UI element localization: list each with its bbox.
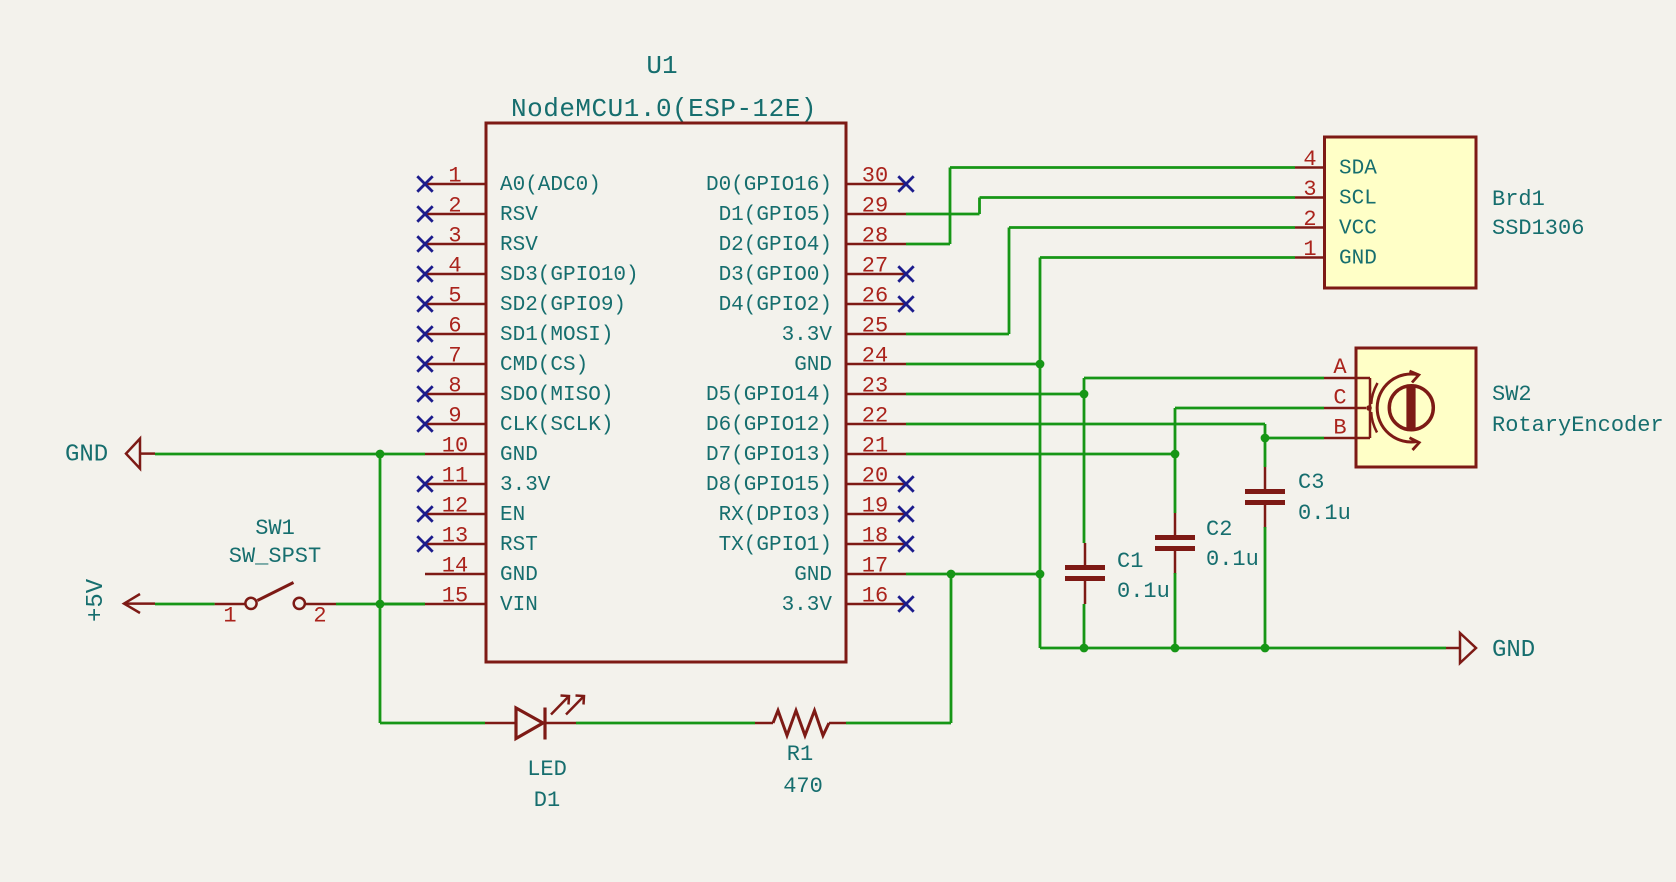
svg-text:7: 7 bbox=[448, 344, 461, 369]
svg-text:D2(GPIO4): D2(GPIO4) bbox=[719, 234, 832, 257]
svg-text:U1: U1 bbox=[646, 51, 677, 81]
SW2 wiper arcs bbox=[1371, 383, 1377, 404]
wire jog up pin29 bbox=[978, 198, 981, 215]
pin 25 3.3V (U1 right) bbox=[782, 314, 906, 348]
wire to SDA bbox=[950, 166, 1295, 169]
svg-text:D1: D1 bbox=[534, 788, 560, 813]
pin 1 A0(ADC0) (U1 left) bbox=[417, 164, 601, 198]
wire to SCL bbox=[980, 196, 1296, 199]
svg-text:16: 16 bbox=[862, 584, 888, 609]
junction (1040,364) bbox=[1036, 360, 1045, 369]
svg-text:D4(GPIO2): D4(GPIO2) bbox=[719, 294, 832, 317]
svg-text:22: 22 bbox=[862, 404, 888, 429]
SW2 rotor circle bbox=[1389, 386, 1433, 430]
svg-text:GND: GND bbox=[65, 442, 108, 469]
svg-text:A0(ADC0): A0(ADC0) bbox=[500, 174, 601, 197]
wire GND vertical bus bbox=[1039, 258, 1042, 649]
svg-text:11: 11 bbox=[442, 464, 468, 489]
pin 27 D3(GPIO0) (U1 right) bbox=[719, 254, 914, 288]
svg-text:EN: EN bbox=[500, 504, 525, 527]
pin 4 SD3(GPIO10) (U1 left) bbox=[417, 254, 638, 288]
wire to VCC bbox=[1009, 226, 1295, 229]
wire C3 bottom bbox=[1264, 527, 1267, 648]
wire jog up pin25 bbox=[1008, 228, 1011, 335]
svg-text:C3: C3 bbox=[1298, 470, 1324, 495]
SW1 contact circle 2 bbox=[294, 598, 305, 609]
pin 29 D1(GPIO5) (U1 right) bbox=[719, 194, 906, 228]
pin 9 CLK(SCLK) (U1 left) bbox=[417, 404, 613, 438]
svg-text:GND: GND bbox=[500, 564, 538, 587]
LED D1 triangle bbox=[516, 708, 543, 739]
svg-text:CLK(SCLK): CLK(SCLK) bbox=[500, 414, 613, 437]
wire VIN down to LED row bbox=[379, 604, 382, 723]
pin 15 VIN (U1 left) bbox=[425, 584, 538, 618]
pin 22 D6(GPIO12) (U1 right) bbox=[706, 404, 906, 438]
display module Brd1 SSD1306 body bbox=[1325, 137, 1477, 288]
svg-text:RSV: RSV bbox=[500, 234, 538, 257]
wire down to B row bbox=[1264, 424, 1267, 438]
pin 5 SD2(GPIO9) (U1 left) bbox=[417, 284, 626, 318]
svg-text:3: 3 bbox=[1303, 177, 1316, 202]
SW2 rotor slot bar bbox=[1406, 386, 1415, 431]
pin A (SW2) bbox=[1324, 355, 1370, 380]
svg-text:C1: C1 bbox=[1117, 549, 1143, 574]
svg-text:SDO(MISO): SDO(MISO) bbox=[500, 384, 613, 407]
wire pin28 to jog bbox=[906, 243, 950, 246]
IC U1 body (NodeMCU1.0 ESP-12E outline) bbox=[486, 123, 846, 662]
junction (380,604) bbox=[376, 600, 385, 609]
svg-text:B: B bbox=[1333, 416, 1346, 441]
wire pin17 GND row bbox=[906, 573, 1040, 576]
svg-text:RSV: RSV bbox=[500, 204, 538, 227]
svg-text:D5(GPIO14): D5(GPIO14) bbox=[706, 384, 832, 407]
wire riser R1 up to pin17 row bbox=[950, 574, 953, 723]
svg-text:RX(DPIO3): RX(DPIO3) bbox=[719, 504, 832, 527]
svg-text:GND: GND bbox=[500, 444, 538, 467]
pin 23 D5(GPIO14) (U1 right) bbox=[706, 374, 906, 408]
svg-text:1: 1 bbox=[1303, 237, 1316, 262]
+5V label flag bbox=[83, 578, 155, 622]
svg-text:14: 14 bbox=[442, 554, 468, 579]
pin 18 TX(GPIO1) (U1 right) bbox=[719, 524, 914, 558]
svg-text:10: 10 bbox=[442, 434, 468, 459]
SW2 rotation arrowhead top bbox=[1410, 371, 1419, 383]
wire to encoder B bbox=[1265, 437, 1324, 440]
wire to LED anode bbox=[380, 722, 485, 725]
svg-text:SCL: SCL bbox=[1339, 188, 1377, 211]
resistor R1 zigzag bbox=[773, 711, 829, 736]
svg-text:SW1: SW1 bbox=[255, 516, 295, 541]
junction (1265,438) bbox=[1261, 434, 1270, 443]
svg-text:D8(GPIO15): D8(GPIO15) bbox=[706, 474, 832, 497]
wire vertical GND to pin 14 bbox=[379, 454, 382, 604]
junction (1175,648) bbox=[1171, 644, 1180, 653]
svg-text:23: 23 bbox=[862, 374, 888, 399]
pin 28 D2(GPIO4) (U1 right) bbox=[719, 224, 906, 258]
svg-text:24: 24 bbox=[862, 344, 888, 369]
GND label flag left bbox=[65, 439, 155, 469]
svg-text:4: 4 bbox=[448, 254, 461, 279]
wire SW1 to pin 15 bbox=[336, 603, 425, 606]
svg-text:3: 3 bbox=[448, 224, 461, 249]
resistor R1 leads bbox=[755, 722, 773, 725]
pin 2 VCC (Brd1) bbox=[1295, 207, 1377, 241]
pin 1 (SW1) bbox=[215, 604, 246, 629]
pin 11 3.3V (U1 left) bbox=[417, 464, 551, 498]
svg-text:12: 12 bbox=[442, 494, 468, 519]
svg-text:6: 6 bbox=[448, 314, 461, 339]
svg-text:19: 19 bbox=[862, 494, 888, 519]
pin 17 GND (U1 right) bbox=[794, 554, 906, 588]
svg-text:3.3V: 3.3V bbox=[500, 474, 551, 497]
wire up to A row bbox=[1083, 378, 1086, 394]
junction (1084,648) bbox=[1080, 644, 1089, 653]
SW2 contact bracket bbox=[1369, 378, 1372, 438]
svg-text:1: 1 bbox=[223, 604, 236, 629]
wire pin14 connect bbox=[380, 603, 425, 606]
pin 30 D0(GPIO16) (U1 right) bbox=[706, 164, 914, 198]
svg-text:RotaryEncoder: RotaryEncoder bbox=[1492, 413, 1664, 438]
pin 26 D4(GPIO2) (U1 right) bbox=[719, 284, 914, 318]
svg-text:20: 20 bbox=[862, 464, 888, 489]
junction (1175,454) bbox=[1171, 450, 1180, 459]
svg-text:5: 5 bbox=[448, 284, 461, 309]
LED D1 emission arrow 2 bbox=[566, 696, 584, 715]
LED D1 cathode bar bbox=[543, 708, 546, 740]
svg-text:26: 26 bbox=[862, 284, 888, 309]
wire pin25 to jog bbox=[906, 333, 1009, 336]
svg-text:D6(GPIO12): D6(GPIO12) bbox=[706, 414, 832, 437]
svg-text:SSD1306: SSD1306 bbox=[1492, 216, 1584, 241]
pin B (SW2) bbox=[1324, 416, 1370, 441]
svg-text:SD3(GPIO10): SD3(GPIO10) bbox=[500, 264, 639, 287]
svg-text:GND: GND bbox=[1339, 248, 1377, 271]
pin 2 (SW1) bbox=[305, 604, 336, 629]
pin 8 SDO(MISO) (U1 left) bbox=[417, 374, 613, 408]
svg-text:TX(GPIO1): TX(GPIO1) bbox=[719, 534, 832, 557]
svg-text:VCC: VCC bbox=[1339, 218, 1377, 241]
svg-text:GND: GND bbox=[794, 564, 832, 587]
pin 20 D8(GPIO15) (U1 right) bbox=[706, 464, 914, 498]
svg-text:D3(GPIO0): D3(GPIO0) bbox=[719, 264, 832, 287]
GND label flag right bbox=[1446, 633, 1535, 664]
svg-text:2: 2 bbox=[448, 194, 461, 219]
junction (1084,394) bbox=[1080, 390, 1089, 399]
capacitor C1 bbox=[1065, 543, 1170, 604]
svg-text:Brd1: Brd1 bbox=[1492, 187, 1545, 212]
svg-text:C2: C2 bbox=[1206, 517, 1232, 542]
LED D1 cathode lead bbox=[545, 722, 576, 725]
LED D1 anode lead bbox=[485, 722, 516, 725]
svg-text:30: 30 bbox=[862, 164, 888, 189]
svg-text:28: 28 bbox=[862, 224, 888, 249]
pin 21 D7(GPIO13) (U1 right) bbox=[706, 434, 906, 468]
svg-text:RST: RST bbox=[500, 534, 538, 557]
pin 2 RSV (U1 left) bbox=[417, 194, 538, 228]
svg-text:CMD(CS): CMD(CS) bbox=[500, 354, 588, 377]
pin 14 GND (U1 left) bbox=[425, 554, 538, 588]
wire GND flag to pin 10 bbox=[155, 453, 425, 456]
wire LED to R1 bbox=[576, 722, 755, 725]
svg-text:D7(GPIO13): D7(GPIO13) bbox=[706, 444, 832, 467]
svg-text:LED: LED bbox=[527, 757, 567, 782]
LED D1 emission arrow 1 bbox=[551, 696, 569, 715]
wire GND rail bbox=[1040, 647, 1446, 650]
wire pin24 GND row bbox=[906, 363, 1040, 366]
pin 6 SD1(MOSI) (U1 left) bbox=[417, 314, 613, 348]
wire R1 to riser bbox=[846, 722, 951, 725]
pin 1 GND (Brd1) bbox=[1295, 237, 1377, 271]
junction (1265,648) bbox=[1261, 644, 1270, 653]
svg-text:SD2(GPIO9): SD2(GPIO9) bbox=[500, 294, 626, 317]
junction (1040,574) bbox=[1036, 570, 1045, 579]
svg-text:4: 4 bbox=[1303, 147, 1316, 172]
svg-text:2: 2 bbox=[1303, 207, 1316, 232]
SW1 lever bbox=[257, 583, 293, 601]
pin 16 3.3V (U1 right) bbox=[782, 584, 914, 618]
junction (380,454) bbox=[376, 450, 385, 459]
svg-text:0.1u: 0.1u bbox=[1117, 579, 1170, 604]
svg-text:D0(GPIO16): D0(GPIO16) bbox=[706, 174, 832, 197]
svg-text:9: 9 bbox=[448, 404, 461, 429]
svg-text:D1(GPIO5): D1(GPIO5) bbox=[719, 204, 832, 227]
capacitor C2 bbox=[1155, 513, 1259, 574]
svg-text:GND: GND bbox=[794, 354, 832, 377]
svg-text:3.3V: 3.3V bbox=[782, 324, 833, 347]
pin 7 CMD(CS) (U1 left) bbox=[417, 344, 588, 378]
svg-text:1: 1 bbox=[448, 164, 461, 189]
pin C (SW2) bbox=[1324, 386, 1372, 411]
svg-text:SDA: SDA bbox=[1339, 158, 1377, 181]
pin 4 SDA (Brd1) bbox=[1295, 147, 1377, 181]
wire C1 top bbox=[1083, 394, 1086, 543]
pin 13 RST (U1 left) bbox=[417, 524, 538, 558]
svg-text:18: 18 bbox=[862, 524, 888, 549]
wire pin23 row bbox=[906, 393, 1084, 396]
svg-text:17: 17 bbox=[862, 554, 888, 579]
wire up to C row bbox=[1174, 408, 1177, 454]
pin 3 SCL (Brd1) bbox=[1295, 177, 1377, 211]
svg-text:SW_SPST: SW_SPST bbox=[229, 544, 321, 569]
junction (951,574) bbox=[947, 570, 956, 579]
wire to encoder C bbox=[1175, 407, 1324, 410]
wire to SSD GND bbox=[1040, 256, 1295, 259]
wire C2 bottom bbox=[1174, 573, 1177, 648]
SW1 contact circle 1 bbox=[245, 598, 256, 609]
svg-text:13: 13 bbox=[442, 524, 468, 549]
svg-text:R1: R1 bbox=[787, 742, 813, 767]
rotary encoder SW2 body bbox=[1356, 348, 1476, 467]
svg-text:470: 470 bbox=[783, 774, 823, 799]
pin 3 RSV (U1 left) bbox=[417, 224, 538, 258]
pin 24 GND (U1 right) bbox=[794, 344, 906, 378]
wire pin29 to jog bbox=[906, 213, 980, 216]
svg-text:SD1(MOSI): SD1(MOSI) bbox=[500, 324, 613, 347]
wire to encoder A bbox=[1084, 377, 1324, 380]
svg-text:C: C bbox=[1333, 386, 1346, 411]
capacitor C3 bbox=[1245, 467, 1351, 528]
wire jog up pin28 bbox=[949, 168, 952, 245]
pin 19 RX(DPIO3) (U1 right) bbox=[719, 494, 914, 528]
wire pin21 row bbox=[906, 453, 1175, 456]
svg-text:SW2: SW2 bbox=[1492, 382, 1532, 407]
wire pin22 row bbox=[906, 423, 1265, 426]
SW2 rotation arc bbox=[1377, 374, 1418, 442]
wire +5V to SW1 bbox=[155, 603, 215, 606]
wire C3 top bbox=[1264, 438, 1267, 467]
svg-text:+5V: +5V bbox=[83, 578, 110, 622]
svg-text:A: A bbox=[1333, 355, 1347, 380]
wire C1 bottom bbox=[1083, 604, 1086, 648]
svg-text:21: 21 bbox=[862, 434, 888, 459]
svg-text:25: 25 bbox=[862, 314, 888, 339]
svg-text:29: 29 bbox=[862, 194, 888, 219]
svg-text:3.3V: 3.3V bbox=[782, 594, 833, 617]
svg-text:0.1u: 0.1u bbox=[1206, 547, 1259, 572]
svg-text:VIN: VIN bbox=[500, 594, 538, 617]
svg-text:8: 8 bbox=[448, 374, 461, 399]
wire C2 top bbox=[1174, 454, 1177, 513]
SW2 rotation arrowhead bottom bbox=[1410, 438, 1420, 450]
svg-text:NodeMCU1.0(ESP-12E): NodeMCU1.0(ESP-12E) bbox=[511, 94, 817, 124]
svg-text:15: 15 bbox=[442, 584, 468, 609]
svg-text:0.1u: 0.1u bbox=[1298, 501, 1351, 526]
pin 12 EN (U1 left) bbox=[417, 494, 525, 528]
pin 10 GND (U1 left) bbox=[425, 434, 538, 468]
svg-text:2: 2 bbox=[313, 604, 326, 629]
svg-text:GND: GND bbox=[1492, 637, 1535, 664]
svg-text:27: 27 bbox=[862, 254, 888, 279]
